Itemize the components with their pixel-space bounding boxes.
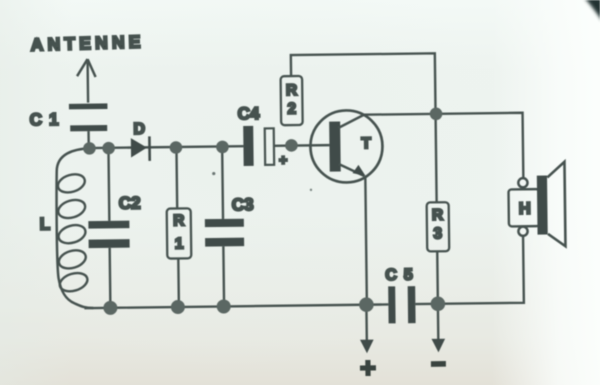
svg-text:R: R	[173, 212, 184, 229]
svg-text:H: H	[519, 200, 531, 218]
svg-text:1: 1	[175, 235, 184, 252]
svg-text:C5: C5	[385, 267, 420, 284]
svg-text:C4: C4	[238, 104, 261, 123]
svg-text:D: D	[133, 121, 145, 138]
svg-text:R: R	[432, 207, 443, 224]
svg-text:L: L	[40, 215, 51, 234]
svg-text:+: +	[279, 152, 287, 168]
svg-text:C1: C1	[30, 110, 66, 129]
svg-text:3: 3	[433, 225, 442, 242]
svg-text:ANTENNE: ANTENNE	[30, 31, 145, 54]
svg-text:R: R	[286, 82, 297, 99]
svg-text:2: 2	[287, 101, 296, 118]
svg-text:C2: C2	[119, 193, 141, 212]
svg-text:C3: C3	[232, 195, 254, 214]
svg-text:T: T	[361, 135, 371, 152]
